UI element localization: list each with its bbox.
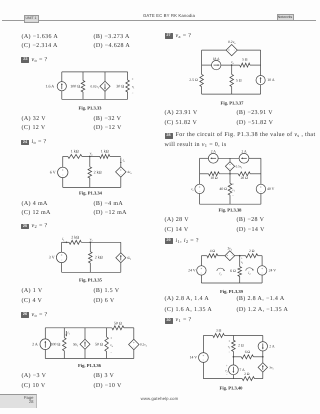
svg-text:+: + — [201, 266, 203, 270]
current source 2 A — [32, 339, 50, 350]
wire outline Fig37 — [202, 50, 261, 94]
svg-text:−: − — [203, 358, 205, 362]
node v1 plus/minus marks — [132, 77, 136, 95]
svg-text:14 V: 14 V — [190, 356, 198, 360]
node va fig37 — [231, 60, 235, 66]
options q23 — [22, 116, 46, 122]
svg-text:6 V: 6 V — [50, 170, 56, 175]
svg-text:−: − — [231, 254, 233, 258]
svg-text:−: − — [234, 48, 236, 52]
resistor 2 Ohm bottom — [242, 372, 254, 380]
svg-text:−: − — [62, 173, 64, 177]
svg-text:−: − — [133, 345, 135, 349]
svg-text:v1: v1 — [132, 85, 135, 90]
svg-text:2 A: 2 A — [269, 345, 275, 349]
figure Fig P1.3.39 — [188, 247, 276, 295]
resistor 50 Ohm vertical — [95, 328, 108, 359]
footer url — [132, 396, 188, 401]
dependent source 0.2va — [226, 40, 237, 56]
figure Fig P1.3.38 — [191, 150, 275, 214]
svg-text:1 kΩ: 1 kΩ — [71, 149, 79, 154]
svg-text:10 Ω: 10 Ω — [210, 176, 217, 180]
svg-text:−: − — [261, 271, 263, 275]
svg-text:3v1: 3v1 — [269, 366, 274, 371]
question 25 — [21, 224, 29, 230]
svg-text:−: − — [201, 271, 203, 275]
header rule — [2, 19, 316, 22]
resistor 1 kOhm right — [100, 149, 110, 159]
resistor 2 Ohm fig39 — [246, 249, 258, 258]
svg-text:0.2vo: 0.2vo — [140, 343, 148, 348]
svg-text:−: − — [199, 189, 201, 193]
voltage source 14 V — [190, 353, 209, 363]
svg-text:−: − — [232, 194, 234, 198]
resistor 5 Ohm vertical — [230, 65, 242, 94]
wire middle Fig40 — [233, 356, 264, 358]
current arrow io — [120, 158, 126, 164]
svg-text:2 Ω: 2 Ω — [244, 372, 250, 376]
wire left edge Fig33 — [61, 72, 63, 99]
current source 2 A right — [239, 150, 249, 164]
resistor 2 kOhm horizontal — [69, 234, 81, 244]
wire outline Fig40 — [203, 336, 262, 379]
dependent source 3v1 fig39 — [225, 247, 235, 261]
svg-text:18 A: 18 A — [213, 57, 220, 61]
svg-text:+: + — [199, 185, 201, 189]
svg-text:Fig. P1.3.38: Fig. P1.3.38 — [219, 208, 243, 214]
svg-text:i1: i1 — [62, 237, 65, 242]
current source 1.6 A — [46, 82, 67, 91]
voltage source 40 V — [256, 184, 274, 193]
resistor 4 Ohm — [207, 249, 218, 258]
resistor 40 Ohm — [219, 174, 231, 204]
svg-text:100 Ω: 100 Ω — [50, 341, 60, 346]
node v2 — [90, 237, 94, 243]
wire outline Fig36 — [45, 328, 134, 359]
resistor 20 Ohm — [238, 172, 250, 180]
dependent source 0.5v1 — [225, 158, 243, 174]
figure Fig P1.3.36 — [32, 320, 148, 369]
svg-text:−: − — [61, 258, 63, 262]
voltage source 24 V right — [257, 266, 276, 275]
voltage source vs — [191, 184, 204, 193]
node v1 plus/minus marks fig38 — [232, 182, 235, 198]
mesh current i2 — [246, 268, 253, 271]
svg-text:4 Ω: 4 Ω — [210, 249, 216, 253]
svg-text:i1: i1 — [68, 330, 71, 335]
svg-text:v1: v1 — [241, 260, 244, 265]
svg-text:+: + — [228, 48, 230, 52]
svg-text:Fig. P1.3.35: Fig. P1.3.35 — [79, 277, 103, 283]
svg-text:−: − — [226, 373, 228, 376]
svg-text:v1: v1 — [228, 345, 231, 350]
dependent source 0.2vo — [129, 339, 148, 349]
options q29 — [165, 296, 210, 302]
svg-text:+: + — [226, 364, 228, 367]
figure Fig P1.3.37 — [189, 40, 275, 106]
svg-text:+: + — [62, 168, 64, 172]
svg-text:−: − — [229, 167, 231, 171]
svg-text:i1: i1 — [219, 271, 221, 276]
svg-text:2 kΩ: 2 kΩ — [95, 255, 103, 260]
svg-text:2 A: 2 A — [241, 150, 246, 154]
svg-text:+: + — [261, 266, 263, 270]
svg-text:+: + — [133, 341, 135, 345]
resistor 100 Ohm fig36 — [50, 328, 66, 359]
resistor 2 kOhm vertical — [89, 242, 103, 272]
current source 2 A left — [208, 150, 218, 164]
svg-text:40 V: 40 V — [267, 187, 275, 191]
question 30 — [165, 318, 173, 324]
svg-text:3v1: 3v1 — [228, 247, 233, 252]
current source 7 A — [229, 357, 246, 379]
options q25 — [22, 288, 43, 294]
svg-text:6 Ω: 6 Ω — [245, 350, 251, 354]
svg-text:Fig. P1.3.34: Fig. P1.3.34 — [79, 190, 103, 196]
current source 2 A fig40 — [258, 342, 275, 351]
figure Fig P1.3.40 — [190, 329, 275, 392]
voltage source 6 V — [50, 167, 68, 177]
svg-text:10 A: 10 A — [267, 78, 275, 82]
svg-text:3 V: 3 V — [49, 255, 55, 260]
svg-text:+: + — [110, 336, 112, 340]
question 28 — [165, 133, 173, 139]
resistor 6 Ohm fig40 — [241, 350, 253, 359]
svg-text:20 Ω: 20 Ω — [241, 176, 248, 180]
svg-text:+: + — [229, 339, 231, 343]
svg-text:Fig. P1.3.33: Fig. P1.3.33 — [79, 105, 103, 111]
dependent source 50i1 — [73, 328, 90, 359]
svg-text:1.6 A: 1.6 A — [46, 83, 55, 88]
header networks box — [277, 14, 294, 21]
node v1 plus/minus marks fig40 — [228, 339, 231, 354]
svg-text:2 A: 2 A — [211, 150, 216, 154]
svg-text:io: io — [123, 158, 126, 163]
svg-text:vs: vs — [191, 187, 193, 192]
svg-text:40 Ω: 40 Ω — [219, 187, 227, 191]
svg-text:2 Ω: 2 Ω — [238, 344, 244, 348]
wire outline Fig39 — [201, 256, 262, 283]
options q24 — [22, 201, 48, 207]
svg-text:1 kΩ: 1 kΩ — [101, 149, 109, 154]
node vx fig39 — [239, 255, 244, 265]
resistor 10 Ohm — [209, 172, 220, 180]
svg-text:3 Ω: 3 Ω — [216, 329, 222, 333]
dependent source 6i1 — [116, 253, 132, 263]
question 29 — [165, 238, 173, 244]
figure Fig P1.3.35 — [49, 234, 132, 283]
svg-text:+: + — [61, 253, 63, 257]
footer page box — [0, 394, 37, 408]
svg-text:−: − — [260, 189, 262, 193]
voltage source 3 V — [49, 252, 67, 262]
svg-text:30 Ω: 30 Ω — [116, 83, 124, 88]
dependent source 4va — [116, 164, 133, 188]
resistor 50 Ohm horizontal — [112, 320, 124, 329]
svg-text:+: + — [203, 354, 205, 358]
svg-text:Fig. P1.3.40: Fig. P1.3.40 — [220, 385, 244, 391]
node va — [89, 152, 93, 158]
options q26 — [22, 373, 47, 379]
svg-text:24 V: 24 V — [188, 269, 196, 273]
resistor 1 kOhm left — [68, 149, 82, 159]
resistor 6 Ohm — [230, 256, 241, 283]
svg-text:v1: v1 — [232, 188, 235, 193]
svg-text:0.2va: 0.2va — [228, 40, 236, 45]
figure Fig P1.3.34 — [50, 149, 133, 197]
resistor 100 Ohm — [70, 72, 85, 99]
svg-text:−: − — [110, 350, 112, 354]
wire outline Fig38 — [200, 158, 261, 204]
resistor 3 Ohm — [213, 329, 225, 338]
header center title — [136, 13, 202, 18]
svg-text:2.5 Ω: 2.5 Ω — [189, 78, 198, 82]
svg-text:2 Ω: 2 Ω — [249, 249, 255, 253]
wire outline Fig34 — [63, 156, 121, 187]
svg-text:−: − — [229, 350, 231, 354]
current source 18 A — [212, 57, 221, 70]
wire middle Fig37 — [202, 64, 261, 66]
svg-text:+: + — [260, 185, 262, 189]
svg-text:−: − — [132, 91, 134, 95]
question 23 — [21, 57, 29, 63]
voltage source 24 V left — [188, 266, 206, 275]
question 24 — [21, 140, 29, 146]
svg-text:+: + — [232, 182, 234, 186]
resistor 30 Ohm — [116, 72, 129, 99]
wire outline Fig35 — [62, 242, 121, 272]
svg-text:va: va — [231, 60, 235, 65]
svg-text:50 Ω: 50 Ω — [95, 341, 103, 346]
svg-text:Fig. P1.3.37: Fig. P1.3.37 — [221, 101, 245, 107]
svg-text:Fig. P1.3.39: Fig. P1.3.39 — [220, 289, 244, 295]
mesh current i1 — [217, 268, 224, 271]
svg-text:50i1: 50i1 — [73, 342, 79, 347]
svg-text:+: + — [132, 77, 134, 81]
resistor 2 kOhm — [88, 156, 102, 187]
svg-text:24 V: 24 V — [269, 269, 277, 273]
svg-text:100 Ω: 100 Ω — [70, 83, 80, 88]
svg-text:−: − — [120, 172, 122, 176]
current source 10 A — [256, 76, 275, 85]
svg-text:+: + — [120, 168, 122, 172]
svg-text:6i1: 6i1 — [127, 256, 132, 261]
svg-text:4va: 4va — [127, 170, 132, 175]
svg-text:5 Ω: 5 Ω — [236, 78, 242, 82]
resistor 5 Ohm horizontal — [240, 58, 250, 67]
resistor 2 Ohm vertical fig40 — [232, 336, 244, 357]
options q27 — [165, 110, 198, 116]
svg-text:+: + — [227, 254, 229, 258]
dependent source 0.02v1 — [91, 72, 111, 99]
resistor 2.5 Ohm — [189, 74, 203, 86]
svg-text:0.5v1: 0.5v1 — [236, 164, 243, 169]
options prev question — [22, 34, 59, 40]
question 27 — [165, 33, 173, 39]
current label i1 — [62, 237, 67, 243]
wire middle Fig38 — [200, 173, 261, 175]
figure Fig P1.3.33 — [46, 72, 136, 111]
svg-text:2 A: 2 A — [32, 341, 38, 346]
svg-text:2 kΩ: 2 kΩ — [94, 170, 102, 175]
header unit box — [24, 15, 39, 23]
svg-text:i2: i2 — [248, 271, 251, 276]
wire right edge Fig40 — [262, 336, 264, 379]
question 26 — [21, 312, 29, 318]
svg-text:6 Ω: 6 Ω — [230, 269, 236, 273]
wire top/bottom Fig33 — [62, 72, 128, 99]
svg-text:0.02v1: 0.02v1 — [91, 84, 100, 89]
options q28 — [165, 217, 189, 223]
svg-text:vo: vo — [110, 343, 113, 348]
svg-text:2 kΩ: 2 kΩ — [71, 234, 79, 239]
current label i1 fig36 — [65, 330, 70, 336]
svg-text:5 Ω: 5 Ω — [242, 58, 248, 62]
node vo plus/minus marks fig36 — [110, 336, 113, 355]
dependent source 3v1 fig40 — [258, 363, 274, 372]
svg-text:Fig. P1.3.36: Fig. P1.3.36 — [78, 363, 102, 369]
node v2 marks fig40 — [225, 364, 228, 376]
svg-text:50 Ω: 50 Ω — [114, 320, 122, 325]
